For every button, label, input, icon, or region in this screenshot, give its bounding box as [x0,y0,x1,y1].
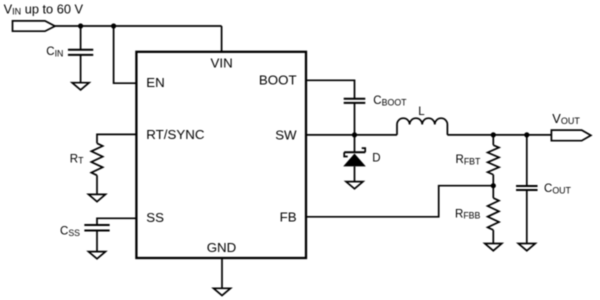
svg-text:FB: FB [280,209,297,224]
svg-text:RFBB: RFBB [455,208,481,220]
junction RFBT tap [491,132,496,137]
svg-text:BOOT: BOOT [259,73,297,88]
ground CSS [89,252,106,259]
pin label RT/SYNC [146,127,205,142]
svg-text:L: L [418,106,425,118]
label RFBB [455,208,481,220]
svg-text:VIN: VIN [211,56,233,71]
wire RFBB bottom lead [492,230,494,244]
pin label BOOT [259,73,297,88]
wire RT/SYNC branch [97,134,136,143]
pin label VIN [211,56,233,71]
svg-text:COUT: COUT [544,183,572,195]
wire VOUT line [447,134,551,136]
svg-text:CIN: CIN [46,46,63,58]
wire RFBT top lead [492,135,494,145]
junction COUT tap [524,132,529,137]
ground GND pin [214,288,231,295]
ground RFBB [485,244,502,251]
net label VIN up to 60 V [4,1,84,16]
ground diode [346,182,363,189]
pin label GND [207,240,237,255]
svg-text:CBOOT: CBOOT [373,95,407,107]
wire COUT bottom lead [526,190,528,244]
svg-text:CSS: CSS [60,226,80,238]
junction FB node [491,183,496,188]
wire CIN top lead [80,26,82,50]
wire EN branch [114,26,137,83]
ground CIN [72,83,89,90]
wire CSS bottom lead [96,231,98,252]
node VIN input tag [13,21,56,31]
capacitor CBOOT [344,99,366,103]
pin label FB [280,209,297,224]
pin label SS [146,210,164,225]
wire RFBB top lead [492,186,494,198]
capacitor CIN [68,50,93,55]
svg-text:RT: RT [70,153,84,165]
wire RT bottom lead [96,175,98,194]
svg-text:VOUT: VOUT [552,111,580,126]
wire RFBT bottom lead [492,175,494,186]
resistor RFBB [488,198,499,230]
resistor RFBT [488,145,499,175]
wire FB branch [306,186,493,217]
wire BOOT branch [306,80,355,98]
junction SW node [352,132,357,137]
wire diode anode lead [354,166,356,181]
label RT [70,153,84,165]
wire diode cathode lead [354,135,356,152]
diode D schottky [343,148,366,166]
wire GND pin lead [221,258,223,288]
svg-text:SS: SS [146,210,164,225]
resistor RT [91,143,102,175]
inductor L [397,118,447,135]
wire VIN rail [55,25,222,27]
svg-text:VIN up to 60 V: VIN up to 60 V [4,1,84,16]
label COUT [544,183,572,195]
label D [372,153,380,165]
svg-text:D: D [372,153,380,165]
wire SS branch [97,218,136,225]
junction EN tap [111,23,116,28]
label L [418,106,425,118]
svg-text:GND: GND [207,240,237,255]
capacitor COUT [516,186,538,190]
capacitor CSS [84,225,109,231]
junction CIN tap [78,23,83,28]
pin label EN [146,75,164,90]
wire CIN bottom lead [80,55,82,83]
IC U1 buck regulator body [136,52,306,258]
node VOUT output tag [551,130,591,141]
svg-text:SW: SW [275,128,297,143]
label CIN [46,46,63,58]
label CBOOT [373,95,407,107]
svg-text:EN: EN [146,75,164,90]
svg-text:RT/SYNC: RT/SYNC [146,127,205,142]
pin label SW [275,128,297,143]
ground COUT [518,244,535,251]
wire CBOOT to SW node [354,103,356,135]
wire SW line [306,134,397,136]
wire COUT top lead [526,135,528,186]
net label VOUT [552,111,580,126]
label RFBT [456,154,482,166]
svg-text:RFBT: RFBT [456,154,482,166]
label CSS [60,226,80,238]
ground RT [89,194,106,201]
wire VIN rail drop to VIN pin [221,26,223,52]
